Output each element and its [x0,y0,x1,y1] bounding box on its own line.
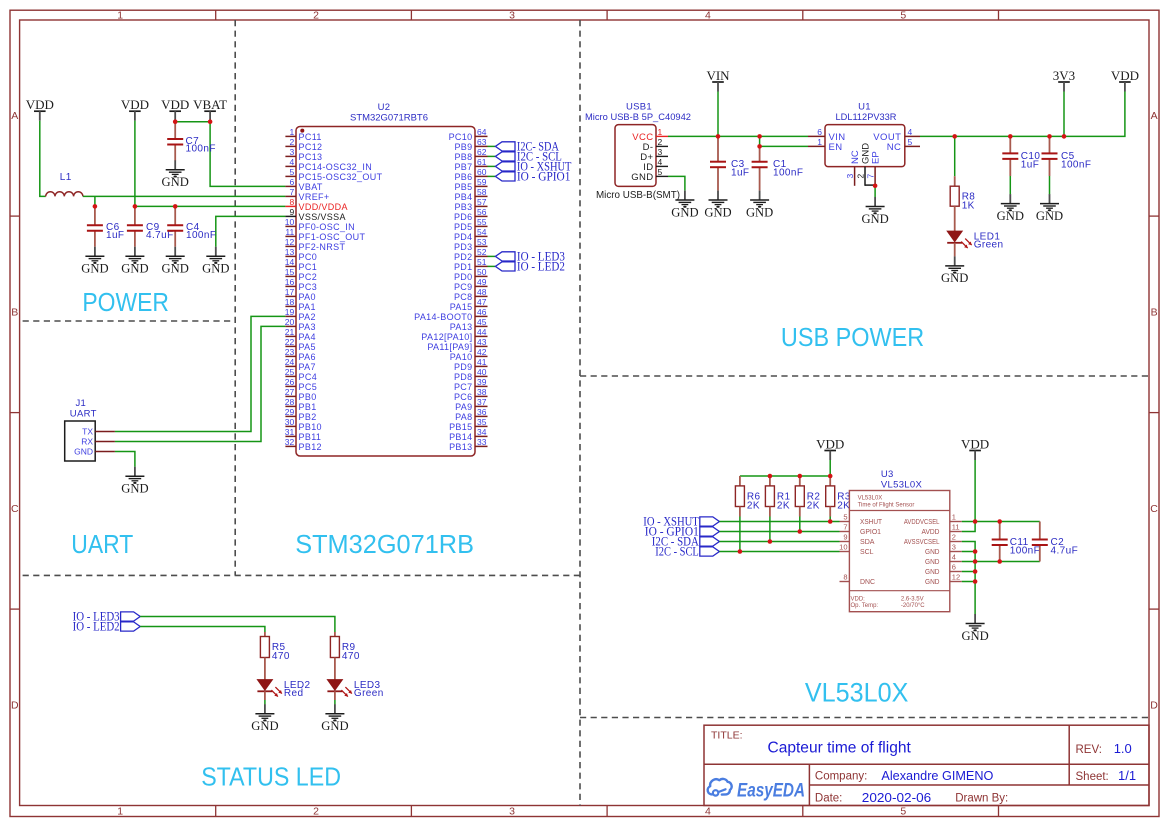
svg-text:VBAT: VBAT [193,97,227,112]
LED1 bottom lead [954,243,956,257]
ground (U3) [961,614,988,643]
ground (LED3) [321,704,348,733]
wire VDD3 to VBAT [175,121,210,123]
svg-text:EP: EP [871,151,882,164]
junction R2/GPIO1 [798,529,803,534]
wire AVSSVCSEL down to GND [962,542,975,615]
svg-text:64: 64 [477,127,487,137]
U2 pin 47 (PA15) [450,297,488,312]
svg-text:VBAT: VBAT [299,182,323,192]
svg-text:PB14: PB14 [449,432,472,442]
svg-text:AVDD: AVDD [922,529,940,536]
svg-text:PB12: PB12 [299,442,322,452]
wire C1 riser [759,136,761,146]
svg-text:57: 57 [477,197,487,207]
junction R1/SDA [768,539,773,544]
svg-text:63: 63 [477,137,487,147]
wire down to R8 [954,136,956,176]
capacitor C2 [1032,522,1078,562]
svg-text:PC13: PC13 [299,152,323,162]
wire J1 GND down [115,452,135,467]
U2 pin 25 (PC4) [285,367,317,382]
svg-text:PC7: PC7 [454,382,473,392]
section divider horizontal (POWER bottom) [23,320,236,322]
svg-text:L1: L1 [60,172,72,183]
C5 lower wire [1049,176,1051,194]
svg-text:12: 12 [952,573,960,582]
svg-text:100nF: 100nF [186,230,216,241]
power flag VDD (VL53 left) [816,436,844,460]
junction at C1 riser [757,134,762,139]
U3 pin 1 (AVDDVCSEL) [904,513,962,527]
U2 pin 28 (PB1) [285,397,317,412]
svg-text:39: 39 [477,377,487,387]
svg-text:PA5: PA5 [299,342,316,352]
wire I2C-SDA to U3 [719,541,839,543]
resistor R6 [735,486,760,512]
junction at C4 [173,204,178,209]
svg-text:36: 36 [477,407,487,417]
svg-text:PC10: PC10 [449,132,473,142]
svg-text:19: 19 [285,307,295,317]
svg-text:13: 13 [285,247,295,257]
wire U2 VSS/VSSA (pin 9) to GND [216,216,286,246]
svg-text:USB POWER: USB POWER [781,324,924,352]
svg-text:1/1: 1/1 [1118,768,1136,783]
svg-text:14: 14 [285,257,295,267]
net flag IO-LED3 (status) [73,610,141,624]
svg-text:6: 6 [817,127,822,137]
svg-text:AVDDVCSEL: AVDDVCSEL [904,519,940,526]
svg-text:VSS/VSSA: VSS/VSSA [299,212,346,222]
svg-text:PC12: PC12 [299,142,323,152]
svg-text:5: 5 [900,805,906,817]
ground (U1) [861,197,888,226]
svg-text:PC0: PC0 [299,252,318,262]
svg-text:Red: Red [284,688,304,699]
ground (U2 VSS) [202,247,229,276]
svg-text:34: 34 [477,427,487,437]
svg-text:5: 5 [908,137,913,147]
wire L1 to U2 VREF+ (pin 7) [83,195,286,197]
ground (C6) [81,247,108,276]
R2 top lead [799,476,801,486]
svg-text:PB3: PB3 [454,202,472,212]
U2 pin 34 (PB14) [449,427,487,442]
svg-text:NC: NC [850,150,861,164]
wire VBAT to U2 pin 6 [210,121,285,187]
USB1 pin 5 (GND) [631,167,668,183]
wire R3 to IO-XSHUT [829,517,831,522]
power flag VDD #3 [161,97,189,121]
svg-text:GND: GND [671,205,698,219]
wire VIN down [717,92,719,137]
svg-text:5: 5 [900,9,906,21]
junction at U1 EP/GND [873,184,878,189]
U2 pin 41 (PD9) [454,357,488,372]
U2 pin 1 marker dot [300,129,304,133]
svg-text:PC9: PC9 [454,282,473,292]
LED2 bottom lead [264,691,266,700]
U2 pin 45 (PA13) [450,317,488,332]
junction at VBAT [208,119,213,124]
R6 bottom lead [739,507,741,517]
ground (USB1) [671,191,698,220]
wire R2 to IO-GPIO1 [799,517,801,532]
junction at C5 [1047,134,1052,139]
svg-text:100nF: 100nF [186,144,216,155]
svg-text:TX: TX [82,427,93,437]
svg-text:2: 2 [289,137,294,147]
junction pin6 [973,569,978,574]
svg-text:POWER: POWER [82,289,168,317]
U2 pin 63 (PB9) [454,137,487,152]
svg-text:Op. Temp:: Op. Temp: [851,603,879,609]
U2 pin 54 (PD4) [454,227,488,242]
svg-text:100nF: 100nF [1010,546,1040,557]
U2 pin 32 (PB12) [285,437,322,452]
svg-text:PB2: PB2 [299,412,317,422]
wire J1 TX to U2 PA2 (pin 19) [115,316,286,431]
svg-text:GND: GND [925,559,940,566]
wire VDD1 down to L1 [40,121,46,197]
svg-text:PD5: PD5 [454,222,473,232]
U2 pin 44 (PA12[PA10]) [421,327,487,342]
svg-text:2: 2 [658,137,663,147]
U2 pin 36 (PA8) [455,407,487,422]
svg-text:RX: RX [81,437,93,447]
U2 pin 51 (PD1) [454,257,488,272]
svg-text:PA1: PA1 [299,302,316,312]
svg-text:6: 6 [952,563,956,572]
section divider vertical (STM32 | USB POWER/VL53L0X) [579,20,581,806]
R2 bottom lead [799,507,801,517]
svg-text:UART: UART [71,531,133,559]
U2 pin 12 (PF2-NRST) [285,237,346,252]
section divider horizontal (USB POWER bottom) [580,375,1149,377]
svg-text:1: 1 [289,127,294,137]
svg-text:LDL112PV33R: LDL112PV33R [836,112,897,123]
svg-text:GND: GND [925,569,940,576]
wire IO-LED3 to R9 [140,617,335,633]
svg-text:PA15: PA15 [450,302,473,312]
net flag IO-LED3 (U2) [495,250,565,264]
U2 pin 19 (PA2) [285,307,316,322]
wire to U1 EN [760,145,808,147]
svg-text:PC6: PC6 [454,392,473,402]
svg-text:61: 61 [477,157,487,167]
svg-text:GND: GND [81,262,108,276]
resistor R3 [826,486,851,512]
wire U3 GND pin 12 [962,581,975,583]
svg-text:41: 41 [477,357,487,367]
svg-text:470: 470 [272,651,290,662]
svg-text:56: 56 [477,207,487,217]
wire U2 pin to net flag IO-LED2 (U2) [488,265,496,267]
power flag VIN [706,68,730,92]
U2 pin 52 (PD2) [454,247,488,262]
U2 pin 26 (PC5) [285,377,317,392]
net flag IO-GPIO1 (U2) [495,170,570,184]
svg-text:PA12[PA10]: PA12[PA10] [421,332,472,342]
svg-text:VDD/VDDA: VDD/VDDA [299,202,348,212]
junction at C6 [93,204,98,209]
junction rail at R1 [768,474,773,479]
svg-text:U3: U3 [881,469,894,480]
svg-text:3: 3 [658,147,663,157]
svg-text:20: 20 [285,317,295,327]
svg-text:NC: NC [887,142,902,153]
svg-text:GPIO1: GPIO1 [860,529,881,536]
svg-text:SCL: SCL [860,549,874,556]
U2 pin 29 (PB2) [285,407,317,422]
wire 3V3 down [1063,92,1065,137]
svg-text:Capteur time of flight: Capteur time of flight [768,740,912,757]
U1 pin 6 (VIN) [808,127,846,143]
junction at VIN/C3 [716,134,721,139]
wire U1 VOUT to VDD rail [920,92,1125,137]
wire U2 pin to net flag I2C-SDA [488,145,496,147]
svg-text:48: 48 [477,287,487,297]
svg-text:58: 58 [477,187,487,197]
svg-text:PC11: PC11 [299,132,322,142]
svg-text:1: 1 [952,513,956,522]
svg-text:4: 4 [705,9,711,21]
sensor U3 body [849,491,949,612]
svg-text:PB7: PB7 [454,162,472,172]
U2 pin 58 (PB4) [454,187,487,202]
U1 pin 2 (GND bottom) [856,143,872,186]
svg-text:1: 1 [658,127,663,137]
svg-text:2: 2 [856,174,866,179]
ground (C10) [997,194,1024,223]
svg-text:GND: GND [997,209,1024,223]
svg-text:PB9: PB9 [454,142,472,152]
U2 pin 33 (PB13) [449,437,487,452]
svg-text:PD1: PD1 [454,262,473,272]
svg-text:2K: 2K [777,500,790,511]
wire IO-XSHUT to U3 [719,521,839,523]
LED LED2 (Red) [257,680,310,700]
svg-text:4: 4 [289,157,294,167]
svg-text:25: 25 [285,367,295,377]
U3 pin 9 (SDA) [840,533,875,547]
svg-text:Drawn By:: Drawn By: [955,793,1008,805]
power flag VDD #2 [121,97,149,121]
svg-text:6: 6 [289,177,294,187]
svg-text:2: 2 [952,533,956,542]
svg-text:PF0-OSC_IN: PF0-OSC_IN [299,222,356,232]
U2 pin 57 (PB3) [454,197,487,212]
C10 lower wire [1009,176,1011,194]
U2 pin 61 (PB7) [454,157,487,172]
ground (C1) [746,191,773,220]
R8 bottom lead [954,206,956,231]
junction pin3 [973,549,978,554]
svg-text:2K: 2K [747,500,760,511]
svg-text:40: 40 [477,367,487,377]
svg-text:21: 21 [285,327,295,337]
U2 pin 13 (PC0) [285,247,317,262]
svg-text:35: 35 [477,417,487,427]
net flag IO-LED2 (status) [73,620,141,634]
U3 pin 2 (AVSSVCSEL) [904,533,962,547]
svg-text:Alexandre GIMENO: Alexandre GIMENO [881,768,993,783]
svg-text:10: 10 [839,543,847,552]
svg-text:1K: 1K [962,201,975,212]
svg-text:GND: GND [162,175,189,189]
U2 pin 9 (VSS/VSSA) [285,207,345,222]
svg-text:D: D [11,700,19,712]
svg-text:PB11: PB11 [299,432,322,442]
ground (C7) [162,160,189,189]
section divider horizontal (VL53L0X bottom) [580,717,1149,719]
net flag IO-XSHUT (U2) [495,160,571,174]
wire stub down to C6 [94,196,96,204]
U2 pin 49 (PC9) [454,277,488,292]
resistor R8 [950,186,975,212]
svg-text:3: 3 [509,805,515,817]
resistor R5 [260,637,289,663]
wire U3 GND pin 3 [962,551,975,553]
wire U2 pin to net flag IO-LED3 (U2) [488,255,496,257]
svg-text:2.6-3.5V: 2.6-3.5V [901,597,924,603]
wire IO-GPIO1 to U3 [719,531,839,533]
svg-text:1: 1 [117,805,123,817]
U2 pin 20 (PA3) [285,317,316,332]
junction C11 top [997,519,1002,524]
svg-text:VDD:: VDD: [851,597,866,603]
U2 pin 53 (PD3) [454,237,488,252]
resistor R1 [765,486,790,512]
wire U1 GND pin to EP [865,184,875,186]
USB1 pin 1 (VCC) [632,127,668,143]
U2 pin 39 (PC7) [454,377,488,392]
svg-text:C: C [1150,503,1158,515]
svg-text:3: 3 [845,174,855,179]
wire R6 to I2C-SCL [739,517,741,552]
svg-text:UART: UART [70,408,97,419]
svg-text:8: 8 [843,573,847,582]
svg-text:5: 5 [658,167,663,177]
svg-text:VL53L0X: VL53L0X [881,480,923,491]
U2 pin 55 (PD5) [454,217,488,232]
junction at C10 [1008,134,1013,139]
U3 pin 6 (GND) [925,563,962,577]
junction rail at R3 [828,474,833,479]
U2 pin 3 (PC13) [285,147,322,162]
U2 pin 14 (PC1) [285,257,317,272]
junction at C1/EN [757,144,762,149]
ground (J1) [121,467,148,496]
svg-text:GND: GND [961,629,988,643]
svg-text:VDD: VDD [26,97,54,112]
U2 pin 37 (PA9) [455,397,487,412]
svg-text:PC15-OSC32_OUT: PC15-OSC32_OUT [299,172,383,182]
U2 pin 35 (PB15) [449,417,487,432]
svg-text:PB4: PB4 [454,192,472,202]
svg-text:1uF: 1uF [106,230,124,241]
svg-text:29: 29 [285,407,295,417]
regulator U1 body [825,125,905,167]
R3 bottom lead [829,507,831,517]
svg-text:22: 22 [285,337,295,347]
U3 pin 10 (SCL) [839,543,873,557]
svg-text:60: 60 [477,167,487,177]
svg-text:PC14-OSC32_IN: PC14-OSC32_IN [299,162,373,172]
svg-text:PA3: PA3 [299,322,316,332]
svg-text:STATUS LED: STATUS LED [201,764,341,792]
svg-text:53: 53 [477,237,487,247]
U2 pin 48 (PC8) [454,287,488,302]
R8 top lead [954,176,956,186]
svg-text:PC2: PC2 [299,272,318,282]
title block [704,725,1149,805]
junction C11 bottom [997,559,1002,564]
svg-text:STM32G071RBT6: STM32G071RBT6 [350,112,428,123]
capacitor C6 [87,206,125,246]
svg-text:PB5: PB5 [454,182,472,192]
U3 pin 11 (AVDD) [922,523,962,537]
svg-text:GND: GND [74,447,93,457]
svg-text:PB10: PB10 [299,422,322,432]
svg-text:GND: GND [861,212,888,226]
svg-text:2K: 2K [837,500,850,511]
power flag VDD (USB) [1111,68,1139,92]
wire VDD2 down [134,121,136,207]
svg-text:37: 37 [477,397,487,407]
U2 pin 59 (PB5) [454,177,487,192]
svg-text:7: 7 [289,187,294,197]
svg-text:B: B [11,307,18,319]
svg-text:PB6: PB6 [454,172,472,182]
svg-text:PC1: PC1 [299,262,318,272]
wire U2 pin to net flag IO-XSHUT (U2) [488,165,496,167]
svg-text:SDA: SDA [860,539,875,546]
svg-text:PA8: PA8 [455,412,472,422]
net flag I2C-SDA [495,140,559,154]
svg-text:43: 43 [477,337,487,347]
svg-text:23: 23 [285,347,295,357]
U2 pin 11 (PF1-OSC_OUT) [285,227,365,242]
svg-text:Micro USB-B(SMT): Micro USB-B(SMT) [596,190,680,201]
svg-text:PD9: PD9 [454,362,473,372]
section divider horizontal (UART bottom) [23,574,580,576]
svg-text:32: 32 [285,437,295,447]
ground (C4) [162,247,189,276]
svg-text:52: 52 [477,247,487,257]
svg-text:4: 4 [705,805,711,817]
wire AVDDVCSEL rail (C11/C2 top) [962,521,1040,523]
svg-text:Date:: Date: [815,793,843,805]
svg-text:GND: GND [251,719,278,733]
U2 pin 31 (PB11) [285,427,322,442]
svg-text:GND: GND [746,205,773,219]
svg-text:PB13: PB13 [449,442,472,452]
svg-text:51: 51 [477,257,487,267]
U2 pin 56 (PD6) [454,207,488,222]
svg-text:50: 50 [477,267,487,277]
svg-text:PA2: PA2 [299,312,316,322]
svg-text:VDD: VDD [161,97,189,112]
svg-text:EN: EN [829,142,843,153]
net flag IO-XSHUT (VL53) [643,515,719,529]
J1 pin RX [81,437,115,447]
wire IO-LED2 to R5 [140,627,265,633]
resistor R9 [330,637,359,663]
svg-text:1.0: 1.0 [1114,741,1132,756]
svg-text:44: 44 [477,327,487,337]
